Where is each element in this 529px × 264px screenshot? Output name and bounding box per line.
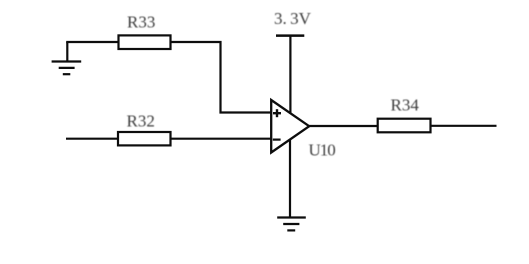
wire: op-amp bottom to GND2 <box>289 139 291 217</box>
wire: left input of R32 <box>66 138 118 140</box>
wire: op-amp output to R34 <box>309 125 378 127</box>
ground GND2 (below op-amp) <box>277 218 306 231</box>
wire: 3.3V to op-amp top <box>289 36 291 114</box>
svg-text:3. 3V: 3. 3V <box>274 9 312 28</box>
power symbol 3.3V bar <box>276 34 304 37</box>
svg-text:R34: R34 <box>391 96 420 115</box>
svg-text:U10: U10 <box>309 141 336 160</box>
svg-text:R32: R32 <box>127 112 155 131</box>
resistor R33 <box>119 35 171 49</box>
wire: R32 to op-amp inverting input <box>171 138 272 140</box>
resistor R32 <box>118 132 171 145</box>
svg-text:R33: R33 <box>127 13 155 32</box>
resistor R34 <box>378 119 431 133</box>
op-amp U10 triangle <box>271 100 309 153</box>
op-amp plus sign (non-inverting input mark) <box>273 109 281 117</box>
op-amp minus sign (inverting input mark) <box>273 139 281 141</box>
wire: R34 to output end <box>431 125 497 127</box>
wire: GND1 to R33 <box>66 41 118 43</box>
wire: R33 to corner <box>171 42 272 113</box>
ground GND1 (top-left) <box>52 42 82 74</box>
